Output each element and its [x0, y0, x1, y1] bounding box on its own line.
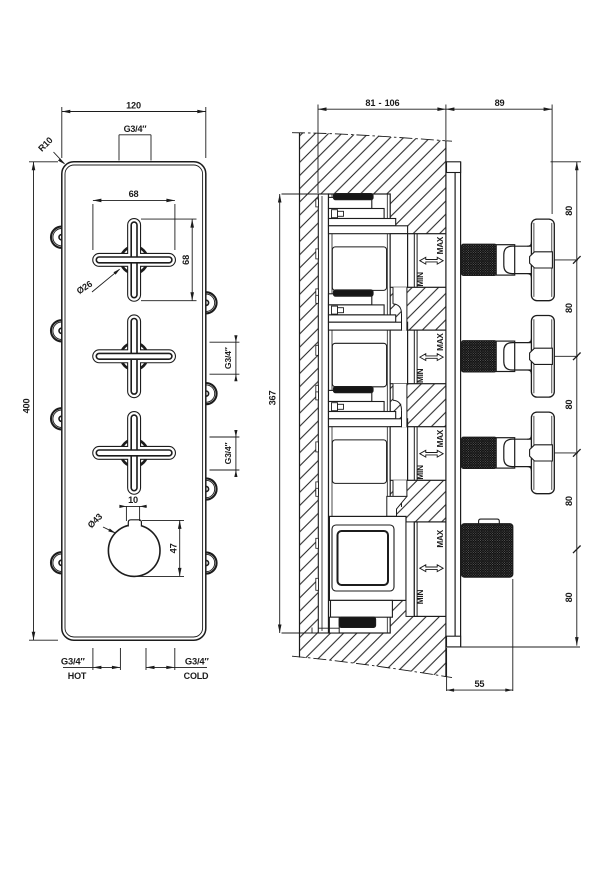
handle 3 centerline [555, 452, 579, 454]
svg-text:80: 80 [564, 400, 574, 410]
svg-text:G3/4″: G3/4″ [223, 443, 233, 465]
handle 1 collar [496, 245, 515, 275]
svg-text:120: 120 [126, 100, 141, 110]
svg-text:10: 10 [128, 495, 138, 505]
cartridge 3 min-max zone [408, 427, 446, 481]
handle 1 cross arm [531, 219, 554, 301]
dim 89 [446, 108, 552, 110]
dim 400 left [33, 162, 35, 640]
cartridge 1 section [329, 197, 372, 208]
svg-text:68: 68 [129, 189, 139, 199]
svg-text:55: 55 [474, 679, 484, 689]
svg-text:89: 89 [495, 98, 505, 108]
dim 367 [279, 194, 281, 633]
thermostat bottom [331, 600, 393, 617]
svg-text:80: 80 [564, 206, 574, 216]
handle 1 centerline [555, 259, 579, 261]
trim plate side view [454, 162, 456, 647]
dim 81-106 [318, 108, 446, 110]
thermostat knob side view [479, 519, 500, 524]
handle 2 knurled stem [462, 341, 497, 372]
dim G3/4 HOT bottom [92, 648, 94, 670]
handle 2 centerline [555, 355, 579, 357]
svg-text:81 - 106: 81 - 106 [365, 98, 399, 108]
dim G3/4 right lower [210, 436, 240, 438]
cartridge 3 body detail [332, 440, 386, 484]
dim 68 horizontal [93, 199, 175, 201]
cartridge 1 cap [334, 194, 374, 200]
cartridge 2 bleed screw [332, 306, 338, 314]
handle 3 collar [496, 438, 515, 468]
handle 2 hub [530, 348, 553, 364]
svg-text:367: 367 [268, 391, 278, 406]
cartridge 2 tail [393, 384, 407, 428]
dim G3/4 COLD bottom [145, 648, 147, 670]
svg-text:80: 80 [564, 593, 574, 603]
handle 1 hub [530, 252, 553, 268]
cross handle cutout 3 [121, 440, 148, 467]
wall break line top [292, 133, 452, 142]
svg-text:MIN: MIN [416, 590, 425, 605]
dim 10 knob button [121, 505, 147, 507]
rough-in box back strip [318, 194, 328, 633]
svg-text:MAX: MAX [436, 236, 445, 254]
cartridge 2 min-max zone [408, 330, 446, 384]
dim 68 vertical [191, 219, 193, 301]
cartridge 1 nose [390, 234, 407, 288]
dim 47 knob [179, 520, 181, 576]
trim plate top cap [447, 162, 461, 173]
svg-text:G3/4″: G3/4″ [185, 656, 210, 667]
cartridge 2 body detail [332, 343, 386, 387]
svg-text:47: 47 [169, 543, 179, 553]
front view trim plate [62, 162, 206, 640]
wall section hatch [300, 133, 446, 678]
handle 2 collar [496, 341, 515, 371]
cartridge 1 min-max zone [408, 234, 446, 288]
cartridge 2 nose [390, 330, 407, 384]
cartridge 3 section [329, 390, 372, 401]
svg-text:G3/4″: G3/4″ [61, 656, 86, 667]
svg-text:68: 68 [181, 255, 191, 265]
cartridge 2 section [329, 294, 372, 305]
thermostat nose strip [406, 522, 414, 617]
mounting bosses left edge [51, 227, 62, 248]
dim G3/4 right upper [210, 341, 240, 343]
cartridge 2 cap [334, 290, 374, 296]
thermostat knob front [108, 525, 160, 577]
handle 1 neck [504, 246, 532, 273]
svg-text:G3/4″: G3/4″ [223, 347, 233, 369]
cartridge 1 body detail [332, 247, 386, 291]
wall break line bottom [292, 656, 452, 677]
dim 80 chain [576, 162, 578, 646]
cartridge 3 tail [393, 480, 407, 503]
trim plate bottom cap [447, 636, 461, 647]
svg-text:MIN: MIN [416, 465, 425, 480]
thermostat connector [387, 496, 407, 516]
svg-text:MIN: MIN [416, 272, 425, 287]
thermostat min-max zone [414, 522, 446, 617]
wall edges [299, 133, 301, 658]
mounting bosses right edge [206, 292, 217, 313]
handle 1 knurled stem [462, 244, 497, 275]
thermostat cartridge body [329, 516, 406, 600]
handle 3 hub [530, 445, 553, 461]
svg-text:80: 80 [564, 303, 574, 313]
dim 120 top [62, 111, 206, 113]
handle 2 cross arm [531, 316, 554, 398]
svg-text:G3/4″: G3/4″ [124, 124, 148, 134]
cartridge 1 tail [393, 287, 407, 330]
handle 3 neck [504, 439, 532, 466]
svg-text:400: 400 [22, 399, 32, 414]
cartridge 3 nose [390, 427, 407, 481]
svg-text:80: 80 [564, 496, 574, 506]
valve body slab [329, 194, 391, 633]
handle 2 neck [504, 343, 532, 370]
svg-text:MAX: MAX [436, 429, 445, 447]
knob top button [128, 520, 141, 527]
cartridge 1 bleed screw [332, 210, 338, 218]
handle 3 knurled stem [462, 437, 497, 468]
cartridge 3 bleed screw [332, 403, 338, 411]
svg-text:COLD: COLD [184, 671, 209, 681]
handle 3 cross arm [531, 412, 554, 494]
cross handle cutout 1 [121, 247, 148, 274]
cross handle cutout 2 [121, 343, 148, 370]
cartridge 3 cap [334, 387, 374, 393]
dim 55 [446, 648, 448, 691]
svg-text:MAX: MAX [436, 333, 445, 351]
svg-text:MAX: MAX [436, 529, 445, 547]
svg-text:HOT: HOT [68, 671, 87, 681]
svg-text:MIN: MIN [416, 368, 425, 383]
